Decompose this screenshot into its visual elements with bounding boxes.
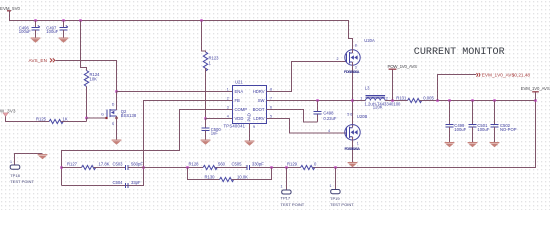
inductor L3 xyxy=(360,85,401,109)
capacitor C497 xyxy=(46,21,68,38)
svg-text:LDRV: LDRV xyxy=(253,116,264,121)
svg-text:BSS138: BSS138 xyxy=(121,113,137,118)
net label DW_3V3 xyxy=(0,109,16,117)
svg-text:EVM_1V0_AVS: EVM_1V0_AVS xyxy=(482,73,515,78)
node off-page xyxy=(436,99,438,101)
ground C497 xyxy=(59,38,69,43)
ground C500 xyxy=(201,140,211,145)
svg-text:2: 2 xyxy=(337,57,339,61)
svg-text:10K: 10K xyxy=(90,77,98,82)
capacitor C505 xyxy=(232,162,265,170)
svg-text:1.2uH-7443340100: 1.2uH-7443340100 xyxy=(365,102,402,107)
svg-text:FB: FB xyxy=(235,98,241,103)
svg-text:POW_1V0_AVS: POW_1V0_AVS xyxy=(388,64,418,69)
ground U20B xyxy=(348,162,358,167)
svg-text:100uF: 100uF xyxy=(46,29,58,34)
node TP17 xyxy=(285,166,287,168)
net label EVM_1V0_AVS xyxy=(521,86,550,101)
wire LDRV xyxy=(267,119,347,134)
transistor U20A xyxy=(344,38,375,101)
capacitor C498 xyxy=(314,101,337,123)
node rail-R124 xyxy=(79,19,81,21)
ground C499 xyxy=(445,142,455,147)
transistor Q2 xyxy=(101,92,137,140)
svg-text:1uF: 1uF xyxy=(211,131,219,136)
wire FB xyxy=(62,101,233,186)
node FB-comp xyxy=(142,166,144,168)
svg-text:10.0K: 10.0K xyxy=(237,174,248,179)
svg-text:1: 1 xyxy=(330,184,332,188)
svg-text:C505: C505 xyxy=(232,162,243,167)
test point TP18 xyxy=(10,154,43,185)
svg-text:R131: R131 xyxy=(396,96,407,101)
node R130-right xyxy=(270,166,272,168)
svg-text:CURRENT MONITOR: CURRENT MONITOR xyxy=(414,47,505,58)
svg-text:C503: C503 xyxy=(113,162,124,167)
wire DW_3V3 xyxy=(6,117,50,122)
resistor R127 xyxy=(62,162,126,170)
svg-text:8: 8 xyxy=(355,44,357,48)
resistor R130 xyxy=(188,168,272,182)
svg-text:120K: 120K xyxy=(373,105,383,110)
svg-text:G: G xyxy=(101,112,104,116)
ground C502 xyxy=(490,142,500,147)
svg-text:TP19: TP19 xyxy=(330,196,340,201)
svg-text:R129: R129 xyxy=(287,162,298,167)
wire SW xyxy=(267,100,353,102)
wire PAD xyxy=(249,124,251,141)
node R130-left xyxy=(186,166,188,168)
svg-text:0.005: 0.005 xyxy=(423,96,434,101)
capacitor C501 xyxy=(469,101,490,143)
svg-text:4: 4 xyxy=(328,129,330,133)
svg-text:33pF: 33pF xyxy=(131,180,141,185)
transistor U20B xyxy=(345,101,368,163)
net label AVS_EN xyxy=(29,58,55,63)
svg-text:1K: 1K xyxy=(63,117,68,122)
svg-text:1: 1 xyxy=(360,96,362,100)
net label POW_1V0_AVS xyxy=(388,64,418,101)
svg-text:FDS9926A: FDS9926A xyxy=(345,146,361,151)
svg-text:8: 8 xyxy=(270,87,272,91)
svg-text:100uF: 100uF xyxy=(19,29,31,34)
svg-text:R130: R130 xyxy=(205,174,216,179)
svg-text:6: 6 xyxy=(270,105,272,109)
svg-text:C498: C498 xyxy=(323,110,334,115)
svg-text:2: 2 xyxy=(227,96,229,100)
svg-text:9: 9 xyxy=(253,125,255,129)
resistor R124 xyxy=(81,21,101,122)
node rail-C497 xyxy=(62,19,64,21)
resistor R128 xyxy=(189,162,226,170)
ground C501 xyxy=(468,142,478,147)
svg-text:5 6: 5 6 xyxy=(347,112,352,116)
svg-text:TEST POINT: TEST POINT xyxy=(330,202,354,207)
capacitor C496 xyxy=(19,21,40,38)
wire VDD xyxy=(206,118,233,120)
test point TP17 xyxy=(281,168,305,207)
svg-text:U20A: U20A xyxy=(364,38,375,43)
svg-text:HDRV: HDRV xyxy=(253,89,265,94)
net label EVM_5V0 xyxy=(0,6,21,11)
svg-text:U21: U21 xyxy=(235,80,243,85)
wire AVS_EN to ENA xyxy=(56,61,117,92)
capacitor C502 xyxy=(491,101,517,143)
svg-text:10,21,48: 10,21,48 xyxy=(512,73,531,78)
svg-text:R125: R125 xyxy=(36,117,47,122)
svg-text:EVM_1V0_AVS: EVM_1V0_AVS xyxy=(521,86,550,91)
svg-text:7: 7 xyxy=(270,96,272,100)
svg-text:COMP: COMP xyxy=(235,107,248,112)
node TP19 xyxy=(334,166,336,168)
wire EVM_5V0 rail xyxy=(10,11,353,45)
op-amp U21 TPS40041 xyxy=(224,80,273,129)
node VDD xyxy=(204,117,206,119)
node SW-C498 xyxy=(316,99,318,101)
svg-text:0.22uF: 0.22uF xyxy=(323,116,336,121)
svg-text:560: 560 xyxy=(218,162,226,167)
svg-text:TP18: TP18 xyxy=(10,173,20,178)
svg-text:NO-POP: NO-POP xyxy=(500,127,517,132)
svg-text:1: 1 xyxy=(227,87,229,91)
node POW_1V0_AVS xyxy=(391,99,393,101)
wire HDRV xyxy=(267,62,347,92)
capacitor C500 xyxy=(202,119,222,140)
svg-text:SW: SW xyxy=(258,98,265,103)
ground PAD xyxy=(245,141,255,146)
capacitor C504 xyxy=(113,180,141,188)
svg-text:4: 4 xyxy=(227,114,229,118)
wire SW to L3 xyxy=(353,100,366,102)
ground TP18 xyxy=(38,154,48,159)
svg-text:2: 2 xyxy=(386,96,388,100)
svg-text:BOOT: BOOT xyxy=(253,107,265,112)
node EVM_1V0_AVS xyxy=(534,99,536,101)
resistor R131 xyxy=(396,96,535,103)
capacitor C503 xyxy=(113,162,144,170)
wire BOOT xyxy=(267,110,318,123)
node SW xyxy=(351,99,353,101)
svg-text:5: 5 xyxy=(270,114,272,118)
svg-text:17.8K: 17.8K xyxy=(99,162,110,167)
node C499 xyxy=(448,99,450,101)
svg-text:L3: L3 xyxy=(365,85,370,90)
node C501 xyxy=(471,99,473,101)
wire gate Q2 xyxy=(87,118,107,122)
svg-text:1: 1 xyxy=(281,184,283,188)
node COMP-comp xyxy=(60,166,62,168)
svg-text:100uF: 100uF xyxy=(454,127,466,132)
node ENA xyxy=(115,90,117,92)
svg-text:1: 1 xyxy=(357,142,359,146)
svg-text:TEST POINT: TEST POINT xyxy=(281,202,305,207)
svg-text:U20B: U20B xyxy=(357,114,368,119)
svg-text:R127: R127 xyxy=(67,162,78,167)
svg-text:100uF: 100uF xyxy=(477,127,489,132)
svg-text:330pF: 330pF xyxy=(252,162,264,167)
off-page connector EVM_1V0_AVS xyxy=(438,73,531,101)
svg-text:TEST POINT: TEST POINT xyxy=(10,179,34,184)
test point TP19 xyxy=(330,168,355,208)
ground Q2 xyxy=(112,140,122,145)
capacitor C499 xyxy=(446,101,467,143)
ground C496 xyxy=(31,38,41,43)
node R124-R125-gate xyxy=(85,117,87,119)
wire COMP xyxy=(62,110,233,186)
node rail-C496 xyxy=(34,19,36,21)
svg-text:ENA: ENA xyxy=(235,89,244,94)
svg-text:VDD: VDD xyxy=(235,116,244,121)
svg-text:AVS_EN: AVS_EN xyxy=(29,58,48,63)
node rail-R123 xyxy=(200,19,202,21)
svg-text:560pF: 560pF xyxy=(131,162,143,167)
wire FB sense row xyxy=(144,101,536,168)
svg-text:R128: R128 xyxy=(189,162,200,167)
svg-text:PAD: PAD xyxy=(247,113,252,121)
wire ENA xyxy=(117,91,233,93)
svg-text:TP17: TP17 xyxy=(281,196,291,201)
svg-text:FDS9926A: FDS9926A xyxy=(344,69,360,74)
svg-text:D: D xyxy=(112,102,115,106)
resistor R123 xyxy=(202,21,220,119)
svg-text:TPS40041: TPS40041 xyxy=(224,123,246,128)
svg-text:3: 3 xyxy=(227,105,229,109)
wire L3 to R131 xyxy=(385,100,407,102)
node C502 xyxy=(493,99,495,101)
resistor R125 xyxy=(36,117,87,124)
svg-text:C504: C504 xyxy=(113,180,124,185)
svg-text:1: 1 xyxy=(10,160,12,164)
resistor R129 xyxy=(287,162,317,170)
